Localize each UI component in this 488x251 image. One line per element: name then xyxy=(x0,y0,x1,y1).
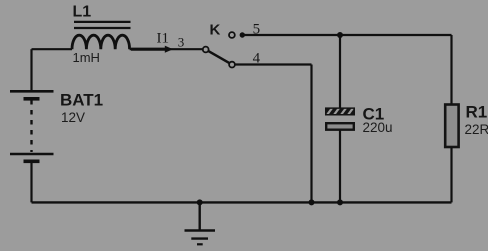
wire xyxy=(450,147,452,202)
switch K xyxy=(203,22,235,68)
node (ground junction) xyxy=(197,199,203,205)
svg-text:1mH: 1mH xyxy=(73,50,100,65)
svg-text:K: K xyxy=(210,22,221,39)
svg-text:12V: 12V xyxy=(61,110,85,125)
wire xyxy=(310,65,312,203)
svg-text:I1: I1 xyxy=(157,31,170,47)
capacitor C1 xyxy=(324,104,393,135)
resistor R1 xyxy=(445,103,488,147)
svg-text:BAT1: BAT1 xyxy=(60,91,103,110)
current arrow I1 xyxy=(131,31,173,53)
wire xyxy=(30,161,32,202)
node (dot on wire 5) xyxy=(240,32,245,37)
node xyxy=(309,199,315,205)
wire (net 5, top rail) xyxy=(244,34,452,36)
svg-text:3: 3 xyxy=(178,35,185,50)
svg-text:220u: 220u xyxy=(363,120,393,135)
wire xyxy=(339,131,341,203)
svg-text:22R: 22R xyxy=(465,122,488,137)
wire xyxy=(450,35,452,105)
node (top junction) xyxy=(337,32,343,38)
battery BAT1 xyxy=(10,91,103,162)
wire (bottom rail) xyxy=(32,201,452,203)
svg-text:L1: L1 xyxy=(73,4,92,21)
ground xyxy=(185,202,216,244)
wire xyxy=(32,48,73,50)
wire (net 4) xyxy=(235,63,312,65)
node xyxy=(337,199,343,205)
wire xyxy=(339,35,341,108)
inductor L1 xyxy=(72,4,131,65)
wire xyxy=(130,48,203,50)
wire xyxy=(30,49,32,91)
svg-text:R1: R1 xyxy=(466,103,488,122)
